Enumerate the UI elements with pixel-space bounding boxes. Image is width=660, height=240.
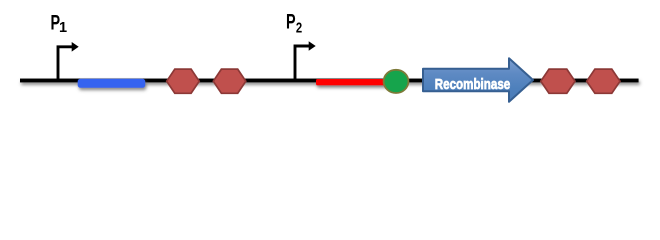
hexagon site 1: [167, 69, 200, 93]
hexagon site 2: [213, 69, 246, 93]
svg-text:P: P: [286, 10, 296, 34]
hexagon site 3: [541, 69, 575, 93]
blue segment (RBS bar): [78, 79, 146, 88]
promoter P1 bent arrow: [58, 42, 79, 80]
wire: DNA baseline: [20, 79, 639, 83]
green ellipse (RBS/regulator): [384, 70, 409, 93]
promoter P2 bent arrow: [295, 41, 316, 80]
svg-text:1: 1: [59, 20, 67, 36]
red segment bar: [316, 79, 390, 85]
hexagon site 4: [587, 69, 620, 93]
svg-text:2: 2: [296, 20, 302, 36]
gene arrow: Recombinase: [423, 58, 533, 102]
svg-text:Recombinase: Recombinase: [435, 77, 511, 93]
